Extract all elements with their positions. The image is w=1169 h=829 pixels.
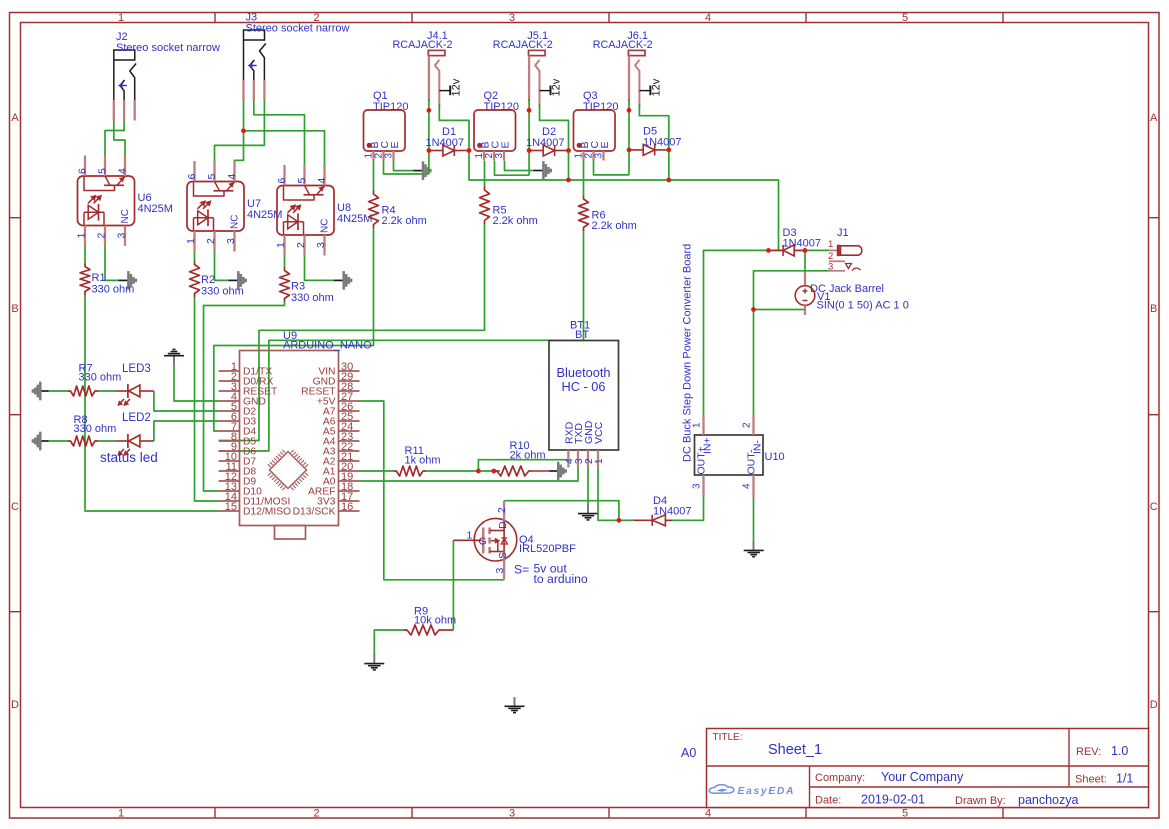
transistor Q2 (TIP120): [474, 110, 516, 151]
svg-text:TIP120: TIP120: [373, 101, 408, 113]
junction dot 9: [627, 108, 632, 113]
wire U8 pin1 to R3: [284, 256, 286, 268]
svg-text:3: 3: [315, 242, 327, 248]
wire J3 junction branch to U8 pin4: [244, 131, 325, 165]
resistor R5: [480, 187, 490, 225]
wire Q3 collector to D5 node: [594, 160, 630, 175]
svg-text:R3: R3: [291, 281, 305, 293]
svg-text:RCAJACK-2: RCAJACK-2: [493, 39, 553, 51]
svg-text:LED3: LED3: [122, 363, 151, 375]
wire R11 to node: [426, 470, 500, 472]
svg-text:2: 2: [742, 422, 753, 428]
junction dot 10: [627, 148, 632, 153]
svg-text:3: 3: [116, 233, 128, 239]
diode D4 (1N4007): [634, 519, 652, 521]
wire D4 node to diode: [619, 519, 634, 521]
resistor R11: [393, 466, 426, 476]
svg-text:2k ohm: 2k ohm: [510, 450, 546, 462]
ground lead (R10): [549, 470, 558, 472]
svg-text:1: 1: [275, 242, 287, 248]
svg-text:panchozya: panchozya: [1018, 793, 1079, 807]
svg-text:D: D: [497, 521, 509, 529]
voltage source V1 (DC jack barrel): [804, 272, 806, 286]
svg-text:1N4007: 1N4007: [643, 137, 682, 149]
power flag 12v (channel 3): [639, 90, 650, 92]
wire J3 left pin to U7 pin4: [235, 100, 244, 161]
wire D4 anode to U10 OUT+: [666, 497, 704, 520]
power flag 12v (channel 1): [439, 90, 450, 92]
svg-text:OUT-: OUT-: [746, 449, 758, 475]
svg-text:2: 2: [313, 808, 319, 820]
wire J6.1 prong to D5 cathode node: [639, 104, 668, 150]
wire J5.1 pin to D2 anode node: [528, 99, 530, 175]
svg-text:15: 15: [225, 501, 237, 513]
resistor R3: [280, 267, 290, 302]
svg-text:6: 6: [186, 174, 198, 180]
svg-text:1N4007: 1N4007: [653, 506, 692, 518]
wire Q1 base to R4: [373, 161, 375, 191]
wire R9 to earth: [374, 630, 404, 654]
svg-text:3: 3: [509, 12, 515, 24]
junction dot 14: [803, 248, 808, 253]
LED2: [116, 440, 128, 442]
diode D1 (1N4007): [429, 150, 443, 152]
svg-text:330 ohm: 330 ohm: [74, 423, 117, 435]
svg-text:2: 2: [295, 242, 307, 248]
svg-text:IRL520PBF: IRL520PBF: [519, 543, 576, 555]
wire LED3 cathode to arduino D2: [154, 391, 219, 411]
earth stub (arduino GND): [173, 356, 175, 365]
svg-text:1.0: 1.0: [1111, 744, 1128, 758]
ground arrow (U8 pin2): [342, 271, 345, 290]
junction dot 6: [527, 148, 532, 153]
svg-text:S: S: [497, 552, 509, 559]
svg-text:DC Buck Step Down Power Conver: DC Buck Step Down Power Converter Board: [682, 244, 694, 462]
svg-text:330 ohm: 330 ohm: [291, 292, 334, 304]
svg-text:1: 1: [828, 239, 833, 250]
svg-text:4: 4: [316, 178, 328, 184]
wire J3 right pin to U7 pin5: [215, 100, 265, 161]
wire D5 cathode to bus: [668, 150, 670, 180]
DC buck converter U10: [695, 435, 764, 475]
svg-text:2: 2: [828, 251, 833, 262]
wire R5 to arduino D5: [219, 224, 485, 441]
ground lead (Q2): [534, 170, 544, 172]
wire arduino +5V to Q4 source: [360, 401, 505, 580]
svg-text:status led: status led: [100, 450, 158, 465]
ground arrow (U7 pin2): [237, 271, 240, 290]
svg-text:Date:: Date:: [815, 795, 841, 807]
resistor R1: [80, 263, 90, 295]
wire J1 pin3 to U10 IN-: [754, 271, 830, 415]
svg-text:2.2k ohm: 2.2k ohm: [592, 220, 637, 232]
mosfet Q4 (IRL520PBF): [474, 518, 517, 561]
svg-text:Company:: Company:: [815, 772, 865, 784]
bluetooth module BT1 (HC-06): [549, 341, 619, 451]
svg-text:C: C: [11, 501, 19, 513]
ground arrow (Q2 emitter): [542, 161, 545, 180]
svg-text:BT: BT: [575, 329, 589, 341]
svg-text:4: 4: [226, 174, 238, 180]
junction dot 8: [566, 178, 571, 183]
RCA jack J5.1: [529, 50, 546, 55]
transistor Q1 (TIP120): [364, 110, 406, 151]
diode D2 (1N4007): [529, 150, 543, 152]
svg-text:TIP120: TIP120: [583, 101, 618, 113]
svg-text:ARDUINO_NANO: ARDUINO_NANO: [283, 340, 372, 352]
wire J6.1 pin to D5 anode node: [628, 99, 630, 175]
optocoupler U8 (4N25M): [277, 186, 334, 236]
LED3: [116, 390, 128, 392]
svg-text:6: 6: [77, 168, 89, 174]
svg-text:4N25M: 4N25M: [138, 203, 173, 215]
wire Q4 drain to D4 node: [504, 501, 619, 521]
wire U8 pin2 to ground: [305, 256, 334, 281]
EasyEDA logo: [709, 785, 734, 793]
svg-text:2: 2: [205, 238, 217, 244]
junction dot 12: [666, 178, 671, 183]
svg-text:S=: S=: [514, 563, 529, 577]
earth stub (BT GND): [587, 504, 589, 513]
wire LED2 cathode to arduino D3: [154, 421, 219, 441]
resistor R2: [190, 261, 200, 297]
svg-text:OUT+: OUT+: [696, 446, 708, 474]
junction dot 7: [566, 148, 571, 153]
connector J3 (stereo socket): [244, 30, 265, 40]
wire U6 pin1 to R1: [84, 246, 86, 263]
ground arrow (LED3 return): [39, 382, 42, 401]
svg-text:Bluetooth: Bluetooth: [556, 365, 610, 380]
svg-text:3: 3: [225, 238, 237, 244]
svg-text:NC: NC: [120, 209, 131, 223]
RCA jack J4.1: [428, 50, 445, 55]
svg-text:2019-02-01: 2019-02-01: [861, 793, 925, 807]
wire J4.1 prong to D1 cathode node: [439, 104, 469, 151]
svg-text:4: 4: [742, 483, 753, 489]
svg-text:A: A: [11, 112, 19, 124]
ground lead (Q1): [413, 170, 422, 172]
lead R10 to ground: [532, 470, 549, 472]
resistor R7: [68, 386, 99, 396]
svg-text:HC - 06: HC - 06: [561, 379, 605, 394]
wire J2 left pin to U6 pin4: [114, 121, 125, 156]
wire D3 anode to J1 pin1: [795, 249, 829, 251]
svg-text:SIN(0 1 50) AC 1 0: SIN(0 1 50) AC 1 0: [817, 300, 909, 312]
wire R7 lead: [49, 390, 68, 392]
wire node to BT RXD: [478, 460, 568, 471]
wire R7 to LED3: [98, 390, 116, 392]
wire D2 cathode to bus: [568, 151, 570, 181]
svg-text:Sheet_1: Sheet_1: [768, 742, 822, 758]
earth ground (BT GND): [578, 513, 598, 515]
svg-text:3: 3: [594, 153, 605, 159]
svg-text:16: 16: [341, 501, 353, 513]
wire Q2 base to R5: [484, 161, 486, 187]
svg-text:3: 3: [384, 153, 395, 159]
ground lead (U7): [228, 279, 238, 281]
wire U10 IN+ to D3 cathode: [704, 250, 783, 415]
junction dot 11: [666, 148, 671, 153]
svg-text:D12/MISO: D12/MISO: [243, 507, 291, 518]
svg-text:U10: U10: [765, 451, 785, 463]
svg-text:5: 5: [902, 12, 908, 24]
svg-text:3: 3: [494, 153, 505, 159]
wire U10 OUT- to earth: [753, 497, 755, 540]
resistor R9: [404, 625, 442, 635]
earth ground (arduino GND): [164, 355, 184, 357]
earth stub (R9): [373, 654, 375, 663]
wire J5.1 prong to D2 cathode node: [540, 104, 569, 151]
wire D1 cathode to 12v bus: [469, 151, 779, 251]
svg-text:RCAJACK-2: RCAJACK-2: [393, 39, 453, 51]
svg-text:5: 5: [97, 168, 109, 174]
svg-text:G: G: [479, 536, 487, 548]
wire R8 lead: [49, 440, 68, 442]
junction dot 15: [751, 307, 756, 312]
wire Q2 emitter to ground: [505, 161, 534, 171]
ground lead (R8): [41, 440, 49, 442]
svg-text:2: 2: [496, 507, 508, 513]
svg-text:VCC: VCC: [593, 421, 605, 444]
svg-text:LED2: LED2: [122, 412, 151, 424]
wire arduino GND to earth: [174, 365, 219, 401]
svg-text:1: 1: [118, 12, 124, 24]
svg-text:Drawn By:: Drawn By:: [955, 795, 1006, 807]
svg-text:12v: 12v: [450, 78, 462, 96]
wire R8 to LED2: [98, 440, 116, 442]
svg-text:R2: R2: [201, 274, 215, 286]
svg-text:D: D: [1150, 699, 1158, 711]
svg-text:1: 1: [594, 458, 605, 464]
ground arrow (R10): [557, 462, 560, 481]
svg-text:6: 6: [276, 178, 288, 184]
svg-text:E: E: [599, 141, 611, 148]
svg-text:TITLE:: TITLE:: [713, 732, 743, 743]
svg-text:3: 3: [509, 808, 515, 820]
transistor Q3 (TIP120): [574, 110, 616, 151]
svg-text:TIP120: TIP120: [484, 101, 519, 113]
ground arrow (U6 pin2): [127, 271, 130, 290]
svg-text:10k ohm: 10k ohm: [414, 615, 456, 627]
ground arrow (Q1 emitter): [422, 161, 425, 180]
optocoupler U7 (4N25M): [187, 182, 244, 232]
junction dot 4: [467, 148, 472, 153]
svg-text:E: E: [499, 141, 511, 148]
svg-text:A: A: [1150, 112, 1158, 124]
junction dot 2: [427, 108, 432, 113]
title block: [707, 729, 1149, 808]
svg-text:NC: NC: [320, 219, 331, 233]
wire J3 middle pin to U8 pin5: [254, 100, 305, 165]
svg-text:4: 4: [705, 808, 711, 820]
junction dot 18: [617, 518, 622, 523]
wire BT GND to earth: [587, 465, 589, 504]
svg-text:R1: R1: [92, 272, 106, 284]
ground lead (U6): [119, 279, 129, 281]
wire Q1 collector to D1 node: [384, 161, 429, 175]
svg-text:1: 1: [118, 808, 124, 820]
svg-text:Stereo socket narrow: Stereo socket narrow: [116, 42, 220, 54]
junction dot 5: [527, 108, 532, 113]
resistor R6: [579, 195, 589, 231]
svg-text:1/1: 1/1: [1116, 772, 1133, 786]
wire Q1 emitter to ground: [394, 161, 414, 171]
connector J2 (stereo socket): [114, 50, 135, 60]
wire arduino A1 to R11: [360, 470, 394, 472]
svg-text:12v: 12v: [551, 78, 563, 96]
wire J4.1 pin to D1 anode node: [428, 99, 430, 174]
diode D5 (1N4007): [629, 149, 643, 151]
svg-text:4: 4: [705, 12, 711, 24]
RCA jack J6.1: [628, 50, 645, 55]
ground arrow (LED2 return): [39, 432, 42, 451]
svg-text:330 ohm: 330 ohm: [92, 284, 135, 296]
svg-text:1k ohm: 1k ohm: [405, 455, 441, 467]
svg-text:1: 1: [76, 233, 88, 239]
power flag 12v (channel 2): [540, 90, 551, 92]
wire R2 to arduino D11/MOSI: [195, 297, 219, 501]
svg-text:NC: NC: [230, 215, 241, 229]
svg-text:3: 3: [692, 483, 703, 489]
svg-text:330 ohm: 330 ohm: [201, 286, 244, 298]
svg-text:1: 1: [467, 530, 473, 542]
wire Q3 base to R6: [583, 160, 585, 195]
svg-text:4N25M: 4N25M: [337, 213, 372, 225]
svg-text:5: 5: [902, 808, 908, 820]
resistor R8: [68, 436, 99, 446]
diode D3 (1N4007): [771, 249, 783, 251]
earth ground (U10 OUT-): [744, 549, 764, 551]
wire BT VCC to D4 node: [598, 465, 619, 520]
svg-text:A0: A0: [681, 746, 696, 760]
wire V1 minus to IN- node: [754, 309, 806, 311]
svg-text:4: 4: [117, 168, 129, 174]
svg-text:1: 1: [185, 238, 197, 244]
svg-text:to arduino: to arduino: [534, 572, 588, 586]
svg-text:D13/SCK: D13/SCK: [293, 507, 336, 518]
svg-text:1N4007: 1N4007: [526, 137, 565, 149]
arduino nano U9: [240, 351, 339, 526]
svg-text:2: 2: [96, 233, 108, 239]
svg-text:Your Company: Your Company: [881, 770, 964, 784]
ground lead (R7): [41, 390, 49, 392]
svg-text:2.2k ohm: 2.2k ohm: [493, 215, 538, 227]
svg-text:J1: J1: [837, 227, 849, 239]
svg-text:Sheet:: Sheet:: [1075, 774, 1107, 786]
svg-text:RCAJACK-2: RCAJACK-2: [593, 39, 653, 51]
svg-text:B: B: [1150, 303, 1157, 315]
wire Q4 gate to R9: [452, 540, 454, 630]
floating earth ground: [514, 697, 516, 706]
junction dot 17: [491, 469, 496, 474]
junction dot 16: [476, 469, 481, 474]
earth ground (R9): [364, 663, 384, 665]
svg-text:Stereo socket narrow: Stereo socket narrow: [246, 23, 350, 35]
wire arduino D6 to R6 net: [219, 340, 584, 451]
svg-text:C: C: [1150, 501, 1158, 513]
wire U7 pin1 to R2: [194, 252, 196, 262]
junction dot 1: [241, 128, 246, 133]
ground lead (U8): [334, 279, 344, 281]
svg-text:3: 3: [494, 568, 506, 574]
svg-text:1N4007: 1N4007: [783, 238, 822, 250]
svg-text:330 ohm: 330 ohm: [79, 372, 122, 384]
wire R3 to arduino D10: [204, 302, 285, 491]
svg-text:B: B: [11, 303, 18, 315]
wire U7 pin2 to ground: [215, 252, 229, 281]
wire R6 to arduino D6 net: [583, 231, 585, 340]
earth stub (U10 OUT-): [753, 540, 755, 550]
wire R1 to arduino D12/MISO: [85, 295, 219, 511]
wire arduino A0 to BT TXD: [360, 460, 579, 481]
svg-text:REV:: REV:: [1076, 746, 1101, 758]
svg-text:E: E: [389, 141, 401, 148]
wire Q2 collector to D2 node: [495, 161, 530, 175]
resistor R4: [369, 191, 379, 229]
svg-text:5: 5: [296, 178, 308, 184]
wire D3 node to V1 plus: [804, 250, 806, 272]
resistor R10: [494, 466, 532, 476]
wire R4 to arduino D4: [214, 228, 374, 431]
svg-text:2.2k ohm: 2.2k ohm: [382, 215, 427, 227]
svg-text:5: 5: [206, 174, 218, 180]
svg-text:1N4007: 1N4007: [426, 137, 465, 149]
svg-text:12v: 12v: [651, 78, 663, 96]
junction dot 3: [427, 148, 432, 153]
svg-text:EasyEDA: EasyEDA: [738, 786, 796, 797]
optocoupler U6 (4N25M): [78, 176, 135, 226]
wire J2 middle pin to U6 pin5: [105, 121, 124, 156]
wire U6 pin2 to ground: [105, 246, 119, 280]
junction dot 13: [766, 248, 771, 253]
svg-text:D: D: [11, 699, 19, 711]
